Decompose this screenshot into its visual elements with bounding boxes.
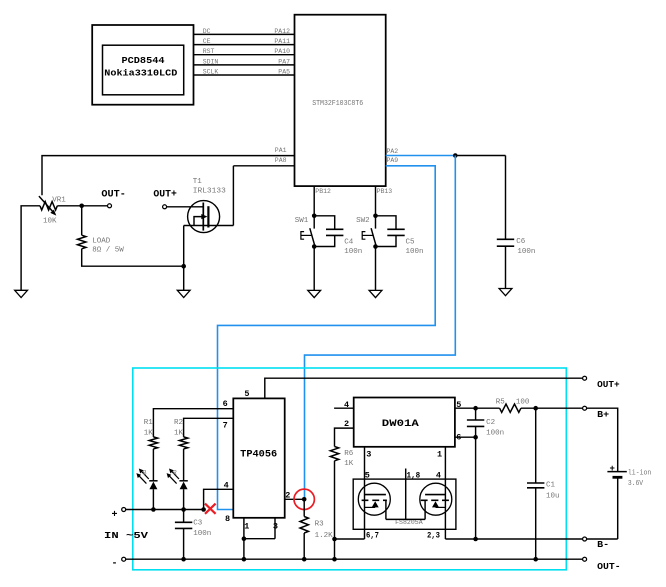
wire pin6 down to B- line	[475, 437, 477, 539]
svg-text:100n: 100n	[344, 248, 362, 256]
svg-text:PA10: PA10	[274, 48, 290, 55]
svg-text:C5: C5	[406, 238, 416, 246]
capacitor C5 branch top	[376, 216, 397, 230]
svg-text:PA1: PA1	[275, 147, 287, 154]
wire sources cross bar	[386, 518, 425, 520]
node R3 at rail	[302, 557, 307, 562]
terminal B+	[583, 406, 587, 410]
capacitor C5 plates	[387, 228, 404, 230]
svg-text:100n: 100n	[193, 530, 211, 538]
red circle marker	[294, 489, 314, 509]
svg-text:8Ω / 5W: 8Ω / 5W	[92, 247, 124, 255]
svg-text:2,3: 2,3	[427, 531, 440, 541]
svg-text:B+: B+	[597, 409, 609, 420]
wire PA8	[233, 165, 294, 167]
capacitor C2 plates	[467, 419, 484, 421]
wire R6 bottom to rail	[334, 461, 336, 559]
svg-text:R3: R3	[315, 521, 325, 529]
transistor T1 circle	[188, 201, 220, 233]
svg-text:DW01A: DW01A	[382, 419, 419, 430]
svg-text:5: 5	[365, 470, 370, 480]
Q-left source vert	[385, 500, 387, 519]
svg-text:PA5: PA5	[278, 69, 290, 76]
wire pin7 to R2	[184, 418, 234, 437]
resistor R3 top lead	[303, 499, 305, 516]
capacitor C3 bottom lead	[183, 528, 185, 559]
svg-text:PB13: PB13	[377, 188, 393, 195]
wire pin4	[204, 489, 234, 509]
transistor T1 channel bar	[207, 206, 209, 227]
Q-right bulk arrow	[432, 501, 439, 507]
LED R top lead	[183, 449, 185, 481]
LED B triangle	[149, 482, 157, 490]
svg-text:OUT-: OUT-	[101, 189, 126, 200]
node C3 at rail	[181, 557, 186, 562]
svg-text:C4: C4	[344, 238, 354, 246]
node SW2 top	[373, 214, 378, 219]
svg-text:Nokia3310LCD: Nokia3310LCD	[104, 69, 178, 79]
resistor LOAD body	[78, 235, 86, 249]
svg-text:100n: 100n	[486, 429, 504, 437]
svg-text:4: 4	[344, 400, 349, 410]
node SW2 bottom	[373, 244, 378, 249]
LED R emission arrows	[171, 471, 179, 479]
capacitor C3 plates	[175, 521, 192, 523]
svg-text:STM32F103C8T6: STM32F103C8T6	[312, 100, 363, 108]
wire LOAD top lead	[81, 206, 83, 235]
node pin2/R3 junction	[302, 497, 307, 502]
wire + rail	[126, 509, 204, 511]
resistor R3 body	[300, 517, 308, 534]
svg-text:2: 2	[344, 419, 349, 429]
svg-text:100: 100	[516, 398, 530, 406]
wire T1 source bar	[184, 225, 234, 227]
wire RST to PA10	[194, 54, 295, 56]
svg-text:R5: R5	[496, 398, 506, 406]
battery BT1 plates	[607, 471, 626, 473]
wire PB12 down	[313, 186, 315, 216]
LED R triangle	[180, 482, 188, 490]
svg-text:CE: CE	[203, 38, 211, 45]
svg-text:8: 8	[225, 514, 230, 524]
svg-text:10u: 10u	[546, 492, 560, 500]
svg-text:C3: C3	[193, 520, 203, 528]
node C2 bottom junction	[473, 435, 478, 440]
node pin6/B- junction	[473, 537, 478, 542]
node PA2/C6 junction	[453, 153, 458, 158]
svg-text:10K: 10K	[43, 217, 57, 225]
svg-text:SDIN: SDIN	[203, 58, 219, 65]
wire SDIN to PA7	[194, 64, 295, 66]
terminal B-	[583, 537, 587, 541]
switch SW2 blade	[371, 228, 376, 246]
potentiometer VR1 body	[40, 202, 57, 210]
resistor R3 bottom lead	[303, 533, 305, 559]
switch SW1 blade	[310, 228, 315, 246]
node LED R at +rail	[181, 507, 186, 512]
wire pins 1,8 stub	[405, 469, 407, 520]
svg-text:4: 4	[224, 481, 229, 491]
capacitor C4 branch top	[314, 216, 335, 230]
capacitor C4 branch bottom	[314, 235, 335, 246]
svg-text:IRL3133: IRL3133	[193, 187, 227, 195]
wire pin1/pin3	[244, 518, 275, 559]
node R6/FS8205A junction	[332, 537, 337, 542]
wire 2,3 to B-	[445, 538, 582, 540]
svg-text:SCLK: SCLK	[203, 69, 219, 76]
wire DW01A pin5 to R5	[455, 407, 500, 409]
ground (C6)	[499, 289, 512, 296]
svg-text:7: 7	[223, 420, 228, 430]
svg-text:VR1: VR1	[52, 196, 66, 204]
wire VR1 left to ground	[21, 206, 40, 290]
Q-left channel dashes	[362, 499, 369, 501]
LED B top lead	[152, 449, 154, 481]
svg-text:PA7: PA7	[278, 58, 290, 65]
svg-text:PCD8544: PCD8544	[122, 56, 166, 66]
wire PB13 down	[375, 186, 377, 216]
Q-right source vert	[424, 500, 426, 519]
svg-text:C1: C1	[546, 482, 556, 490]
capacitor C6 plates	[497, 238, 514, 240]
svg-text:SW2: SW2	[356, 217, 370, 225]
svg-text:B: B	[143, 469, 147, 476]
resistor R1 body	[149, 437, 157, 449]
Q-right channel dashes	[421, 499, 428, 501]
svg-text:100n: 100n	[406, 248, 424, 256]
terminal OUT- (charger)	[583, 557, 587, 561]
svg-text:6: 6	[223, 399, 228, 409]
svg-text:1: 1	[437, 450, 442, 460]
wire PA2 to TP4056 pin2 (blue)	[305, 156, 456, 500]
switch SW2 actuator	[362, 234, 373, 236]
ground (SW2)	[369, 290, 382, 297]
svg-text:100n: 100n	[517, 248, 535, 256]
svg-text:DC: DC	[203, 28, 211, 35]
node C1 top junction	[533, 406, 538, 411]
svg-text:C6: C6	[516, 238, 526, 246]
node pin1/3 junction	[242, 536, 247, 541]
Q-left circle	[358, 483, 390, 515]
svg-text:+: +	[112, 510, 118, 521]
svg-text:RST: RST	[203, 48, 215, 55]
switch SW1 actuator	[301, 234, 312, 236]
node SW1 bottom	[312, 244, 317, 249]
wire R5 to B+	[521, 407, 583, 409]
svg-text:5: 5	[244, 389, 249, 399]
switch SW1 top stub	[313, 216, 315, 229]
wire DW01A pin6	[455, 436, 476, 438]
svg-text:li-ion: li-ion	[628, 470, 651, 478]
node R6 at rail	[332, 557, 337, 562]
svg-text:+: +	[610, 464, 615, 474]
resistor R2 body	[179, 437, 187, 449]
svg-text:R: R	[173, 469, 177, 476]
svg-text:OUT-: OUT-	[597, 561, 621, 572]
svg-text:B-: B-	[597, 539, 609, 550]
wire T1 drain to PA8	[232, 166, 234, 226]
battery BT1 bottom lead	[587, 477, 618, 539]
wire pin2	[285, 498, 305, 500]
wire junction to C6	[455, 155, 505, 157]
svg-text:PA2: PA2	[387, 148, 399, 155]
Q-right circle	[420, 483, 452, 515]
LCD module PCD8544 outer box	[92, 25, 193, 105]
capacitor C1 top lead	[535, 408, 537, 483]
terminal OUT+ circle	[163, 205, 167, 209]
wire OUT+ to T1 gate	[167, 206, 203, 208]
svg-text:6: 6	[456, 432, 461, 442]
Q-left top bar	[365, 494, 386, 496]
capacitor C6 top lead	[505, 156, 507, 240]
svg-text:TP4056: TP4056	[240, 449, 277, 460]
svg-text:R2: R2	[174, 419, 183, 427]
ground (T1/LOAD)	[177, 290, 190, 297]
svg-text:T1: T1	[193, 178, 203, 186]
wire T1 source down	[183, 226, 185, 267]
terminal OUT- circle	[108, 204, 112, 208]
node C2 top junction	[473, 406, 478, 411]
svg-text:3: 3	[366, 450, 371, 460]
svg-text:PB12: PB12	[315, 188, 331, 195]
IC U1 TP4056 box	[233, 398, 284, 517]
terminal - input	[122, 557, 126, 561]
svg-text:PA8: PA8	[275, 157, 287, 164]
node VR1/LOAD junction	[79, 204, 84, 209]
wire SCLK to PA5	[194, 74, 295, 76]
wire PA1	[42, 156, 295, 196]
Q-right top bar	[425, 494, 445, 496]
svg-text:-: -	[112, 559, 118, 570]
IC U3 DW01A box	[354, 398, 455, 447]
battery BT1 top lead	[587, 408, 618, 471]
svg-text:OUT+: OUT+	[153, 189, 177, 200]
node T1 source junction	[181, 264, 186, 269]
svg-text:2: 2	[285, 490, 290, 500]
capacitor C4 plates	[326, 228, 343, 230]
capacitor C5 branch bottom	[376, 235, 397, 246]
svg-text:R1: R1	[144, 419, 154, 427]
switch SW2 top stub	[375, 216, 377, 229]
svg-text:1K: 1K	[144, 429, 154, 437]
wire LOAD bottom	[82, 249, 184, 266]
svg-text:OUT+: OUT+	[597, 379, 620, 390]
resistor R6 body	[330, 447, 338, 461]
capacitor C1 bottom lead	[535, 488, 537, 559]
wire bottom rail	[126, 558, 582, 560]
terminal OUT+ (charger in)	[583, 376, 587, 380]
svg-text:PA9: PA9	[387, 157, 399, 164]
wire CE to PA11	[194, 44, 295, 46]
wire SW2 to ground	[375, 247, 377, 291]
ground (SW1)	[308, 290, 321, 297]
capacitor C3 top lead	[183, 510, 185, 523]
LED B bottom lead	[152, 489, 154, 509]
LED B cathode bar	[149, 480, 157, 482]
wire junction to ground	[183, 266, 185, 290]
svg-text:3.6V: 3.6V	[628, 480, 644, 488]
svg-text:1.2K: 1.2K	[315, 532, 334, 540]
svg-text:R6: R6	[344, 450, 354, 458]
capacitor C2 bottom lead	[475, 426, 477, 437]
charger module outline (cyan)	[133, 368, 567, 570]
wire SW1 to ground	[313, 247, 315, 291]
dual MOSFET U4 FS8205A box	[353, 479, 456, 529]
wire DW01A pin3 / Q-left drain	[364, 447, 366, 539]
LED R bottom lead	[183, 489, 185, 509]
svg-text:1K: 1K	[344, 460, 354, 468]
wire VR1 to OUT- and LOAD	[57, 205, 107, 207]
node pin4 junction	[201, 507, 206, 512]
LED R cathode bar	[179, 480, 187, 482]
potentiometer VR1 wiper arrow	[39, 196, 54, 212]
wire DW01A pin1 / Q-right drain	[444, 447, 446, 539]
wire PA2 (blue)	[386, 155, 456, 157]
wire DC to PA12	[194, 33, 295, 35]
svg-text:3: 3	[273, 522, 278, 532]
svg-text:IN ~5V: IN ~5V	[104, 530, 148, 541]
wire PA9 to TP4056 pin8 (blue)	[218, 166, 436, 510]
wire pin5 to OUT+	[265, 378, 583, 398]
wire pin6 to R1	[153, 409, 233, 437]
node LED B at +rail	[151, 507, 156, 512]
node SW1 top	[312, 214, 317, 219]
svg-text:4: 4	[436, 470, 441, 480]
LED B emission arrows	[141, 471, 149, 479]
svg-text:PA12: PA12	[274, 28, 290, 35]
capacitor C6 bottom lead	[505, 246, 507, 288]
svg-text:6,7: 6,7	[366, 531, 379, 541]
wire DW01A pin4 stub	[334, 407, 354, 409]
Q-left bulk arrow	[372, 501, 379, 507]
wire DW01A pin2 to R6	[335, 428, 354, 446]
LCD module inner screen box	[103, 45, 184, 95]
transistor T1 bulk arrow	[194, 217, 203, 226]
capacitor C2 top lead	[475, 408, 477, 420]
svg-text:PA11: PA11	[274, 38, 290, 45]
svg-text:LOAD: LOAD	[92, 238, 111, 246]
MCU U2 STM32F103C8T6 box	[295, 15, 386, 186]
wire R6 junction to 6,7	[335, 538, 365, 540]
resistor R5 body	[500, 404, 521, 412]
svg-text:1,8: 1,8	[407, 470, 421, 480]
ground (VR1)	[15, 290, 28, 297]
transistor T1 gate bar	[202, 203, 204, 231]
node C1 at rail	[533, 557, 538, 562]
svg-text:C2: C2	[486, 419, 495, 427]
red X mark	[205, 504, 216, 514]
capacitor C1 plates	[527, 482, 544, 484]
node pin1 at rail	[242, 557, 247, 562]
svg-text:SW1: SW1	[295, 217, 309, 225]
svg-text:5: 5	[456, 400, 461, 410]
terminal + input	[122, 508, 126, 512]
svg-text:1: 1	[244, 522, 249, 532]
svg-text:1K: 1K	[174, 429, 184, 437]
